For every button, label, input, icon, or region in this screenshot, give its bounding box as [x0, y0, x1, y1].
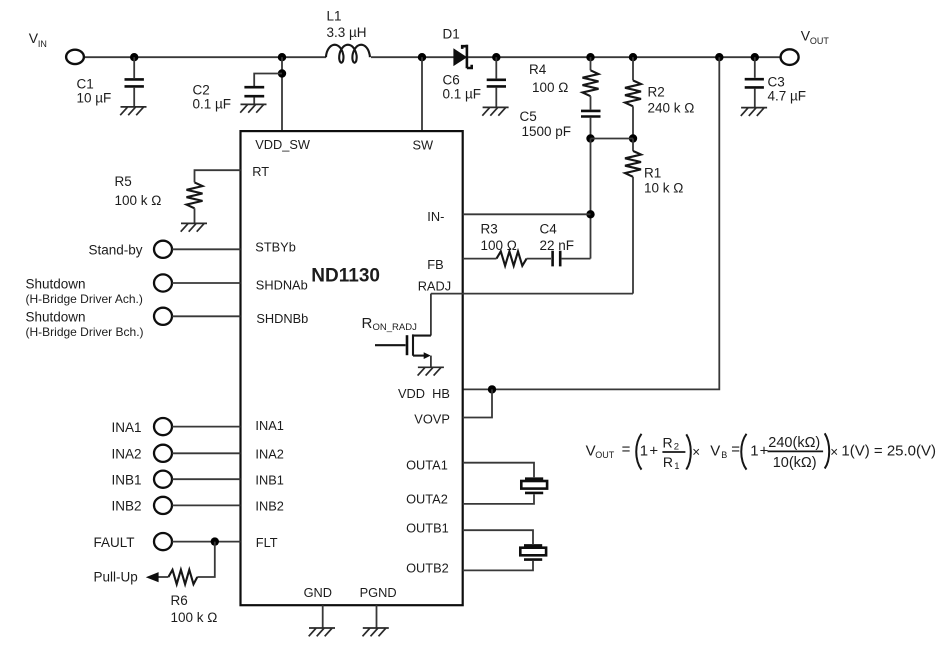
svg-text:INB2: INB2: [255, 498, 283, 513]
svg-text:INA1: INA1: [112, 420, 142, 435]
arrow Pull-Up: [146, 572, 159, 582]
node dot VDDHB/VOVP: [488, 385, 496, 393]
resistor R1: [625, 139, 641, 294]
wire VDDHB drop: [463, 57, 720, 389]
svg-text:INA2: INA2: [255, 446, 283, 461]
svg-text:R1: R1: [644, 166, 661, 181]
svg-text:R: R: [663, 454, 673, 470]
capacitor C1: [125, 57, 144, 107]
resistor R4: [583, 57, 599, 109]
transistor R_ON_RADJ mosfet: [375, 294, 431, 368]
wire INA1: [172, 426, 240, 428]
node dot R4: [586, 53, 594, 61]
svg-text:FB: FB: [427, 257, 443, 272]
wire FLT: [172, 541, 240, 543]
svg-text:0.1 µF: 0.1 µF: [443, 87, 482, 102]
wire rail D1 to VOUT: [468, 56, 781, 58]
svg-text:RADJ: RADJ: [418, 278, 451, 293]
svg-text:INB1: INB1: [255, 472, 283, 487]
ground C3: [741, 108, 767, 116]
svg-text:D1: D1: [443, 27, 460, 42]
wire GND: [322, 605, 324, 628]
svg-text:×: ×: [830, 444, 838, 459]
inductor L1: [326, 45, 370, 63]
svg-text:L1: L1: [327, 9, 342, 24]
svg-text:1500 pF: 1500 pF: [522, 124, 572, 139]
terminal INA1: [154, 418, 172, 435]
terminal INB1: [154, 471, 172, 488]
wire PGND: [376, 605, 378, 628]
wire VOVP: [463, 389, 492, 417]
svg-text:+: +: [760, 443, 769, 460]
resistor R5: [187, 182, 203, 223]
ground C1: [120, 107, 146, 115]
ground R5: [181, 223, 207, 231]
svg-text:IN: IN: [38, 39, 47, 49]
terminal VIN: [66, 50, 84, 64]
resistor R3: [497, 251, 527, 265]
node dot C2/VDD_SW: [278, 53, 286, 61]
svg-text:100 k Ω: 100 k Ω: [115, 193, 162, 208]
IC ND1130 body: [241, 131, 463, 605]
wire RADJ: [431, 293, 633, 295]
svg-text:B: B: [721, 450, 727, 460]
resistor R6: [168, 570, 197, 584]
svg-text:×: ×: [692, 444, 700, 459]
wire FLT to R6: [197, 542, 215, 577]
svg-text:1: 1: [640, 443, 648, 460]
svg-text:R4: R4: [529, 62, 547, 77]
svg-text:4.7 µF: 4.7 µF: [768, 89, 807, 104]
svg-text:0.1 µF: 0.1 µF: [193, 97, 232, 112]
wire R6 to arrow: [158, 576, 168, 578]
piezo A: [521, 479, 547, 493]
svg-text:ND1130: ND1130: [311, 265, 380, 286]
svg-text:100 Ω: 100 Ω: [481, 238, 517, 253]
svg-text:Pull-Up: Pull-Up: [94, 570, 138, 585]
piezo B: [520, 545, 546, 559]
svg-text:OUT: OUT: [810, 36, 830, 46]
svg-text:R: R: [362, 315, 373, 332]
wire C2 branch: [254, 74, 282, 87]
node dot C2 branch: [278, 69, 286, 77]
svg-text:1: 1: [674, 461, 679, 472]
svg-text:V: V: [586, 443, 596, 460]
wire OUTA2: [463, 494, 534, 504]
svg-text:OUTA2: OUTA2: [406, 492, 448, 507]
wire OUTA1: [463, 463, 534, 478]
wire STBYb: [172, 248, 240, 250]
node dot R2 bottom: [629, 134, 637, 142]
wire C4 up: [562, 258, 591, 260]
svg-text:3.3 µH: 3.3 µH: [327, 25, 367, 40]
capacitor C4: [553, 251, 561, 267]
node dot C6: [492, 53, 500, 61]
wire SW drop: [421, 57, 423, 131]
svg-text:FLT: FLT: [256, 535, 278, 550]
svg-text:=: =: [731, 441, 740, 458]
svg-text:INB1: INB1: [112, 473, 142, 488]
wire INA2: [172, 452, 240, 454]
diode D1: [454, 45, 472, 68]
ground C2: [240, 104, 266, 112]
svg-text:INA2: INA2: [112, 447, 142, 462]
svg-text:+: +: [649, 443, 658, 460]
node dot SW: [418, 53, 426, 61]
svg-text:1: 1: [750, 443, 758, 460]
svg-text:C4: C4: [540, 222, 558, 237]
ground PGND: [363, 628, 389, 636]
wire R3 to C4: [527, 258, 551, 260]
svg-text:R2: R2: [648, 85, 665, 100]
svg-text:100 Ω: 100 Ω: [532, 80, 568, 95]
wire SHDNBb: [172, 315, 240, 317]
capacitor C2: [244, 87, 264, 104]
svg-text:10(kΩ): 10(kΩ): [773, 455, 817, 471]
terminal Shutdown B: [154, 308, 172, 325]
svg-text:R6: R6: [171, 593, 188, 608]
svg-text:R5: R5: [115, 174, 132, 189]
svg-text:R: R: [663, 434, 673, 450]
svg-text:240 k Ω: 240 k Ω: [648, 101, 695, 116]
capacitor C6: [487, 57, 506, 107]
svg-text:Shutdown: Shutdown: [26, 310, 86, 325]
node dot C1: [130, 53, 138, 61]
wire node C5-R2: [591, 138, 634, 140]
svg-text:2: 2: [674, 442, 679, 453]
svg-text:VOVP: VOVP: [414, 412, 450, 427]
svg-text:1(V) = 25.0(V): 1(V) = 25.0(V): [841, 443, 936, 460]
svg-text:OUT: OUT: [595, 450, 615, 460]
svg-text:INA1: INA1: [255, 418, 283, 433]
svg-text:10 µF: 10 µF: [77, 91, 112, 106]
node dot C5 bottom: [586, 134, 594, 142]
svg-text:SHDNBb: SHDNBb: [256, 311, 308, 326]
svg-text:IN-: IN-: [427, 209, 444, 224]
wire VDD_SW drop: [281, 57, 283, 131]
terminal Stand-by: [154, 241, 172, 258]
wire INB2: [172, 504, 240, 506]
node dot R2 top: [629, 53, 637, 61]
node dot C3: [751, 53, 759, 61]
svg-text:22 nF: 22 nF: [540, 238, 575, 253]
svg-text:V: V: [710, 443, 720, 460]
svg-text:FAULT: FAULT: [94, 535, 135, 550]
wire FB: [463, 258, 497, 260]
svg-text:(H-Bridge Driver Bch.): (H-Bridge Driver Bch.): [26, 325, 144, 339]
terminal INB2: [154, 497, 172, 514]
capacitor C3: [745, 57, 764, 107]
wire INB1: [172, 478, 240, 480]
svg-text:C5: C5: [520, 109, 537, 124]
svg-text:GND: GND: [304, 585, 332, 600]
ground mosfet: [418, 367, 444, 375]
ground C6: [482, 107, 508, 115]
svg-text:C3: C3: [768, 75, 785, 90]
wire IN-: [463, 213, 591, 215]
svg-text:VDD_SW: VDD_SW: [255, 137, 311, 152]
terminal INA2: [154, 445, 172, 462]
svg-text:C1: C1: [77, 77, 94, 92]
svg-text:100 k Ω: 100 k Ω: [171, 610, 218, 625]
svg-text:C2: C2: [193, 83, 210, 98]
terminal VOUT: [781, 49, 799, 65]
svg-text:ON_RADJ: ON_RADJ: [373, 322, 418, 333]
ground GND: [309, 628, 335, 636]
wire OUTB1: [463, 530, 533, 544]
svg-text:Stand-by: Stand-by: [89, 243, 143, 258]
formula Vout: [586, 433, 936, 472]
svg-text:PGND: PGND: [360, 585, 397, 600]
svg-text:Shutdown: Shutdown: [26, 277, 86, 292]
node dot FLT: [211, 537, 219, 545]
svg-text:VDD HB: VDD HB: [398, 386, 450, 401]
capacitor C5: [581, 111, 601, 139]
svg-text:RT: RT: [252, 164, 269, 179]
svg-text:=: =: [622, 441, 631, 458]
svg-text:240(kΩ): 240(kΩ): [768, 435, 820, 451]
wire feedback vertical: [590, 139, 592, 259]
terminal FAULT: [154, 533, 172, 550]
svg-text:R3: R3: [481, 222, 498, 237]
svg-text:STBYb: STBYb: [255, 239, 296, 254]
svg-text:SHDNAb: SHDNAb: [256, 278, 308, 293]
wire main rail left: [84, 56, 326, 58]
wire SHDNAb: [172, 282, 240, 284]
svg-text:10 k Ω: 10 k Ω: [644, 181, 683, 196]
svg-text:OUTB1: OUTB1: [406, 520, 449, 535]
svg-text:OUTA1: OUTA1: [406, 457, 448, 472]
wire OUTB2: [463, 561, 533, 571]
svg-text:(H-Bridge Driver Ach.): (H-Bridge Driver Ach.): [26, 292, 143, 306]
node dot VDDHB rail: [715, 53, 723, 61]
svg-text:SW: SW: [413, 138, 435, 153]
terminal Shutdown A: [154, 274, 172, 291]
svg-text:INB2: INB2: [112, 499, 142, 514]
resistor R2: [625, 57, 641, 138]
svg-text:OUTB2: OUTB2: [406, 561, 449, 576]
svg-text:C6: C6: [443, 73, 460, 88]
wire RT: [195, 170, 241, 182]
node dot IN-: [586, 210, 594, 218]
wire rail L1 to D1: [371, 56, 454, 58]
